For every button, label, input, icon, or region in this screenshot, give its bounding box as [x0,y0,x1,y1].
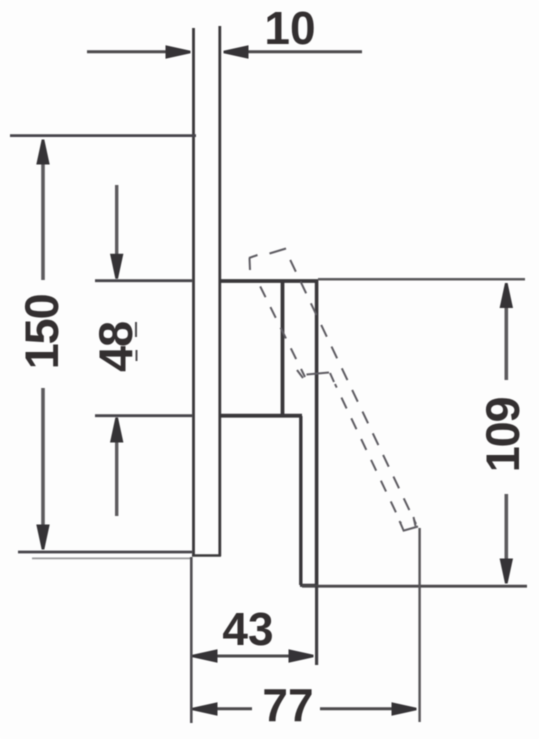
extension line 77 right [418,528,420,722]
dimension 77 left shaft [209,707,252,710]
svg-text:48: 48 [89,322,142,372]
arm top edge [220,279,318,283]
extension line 43 right (below arm) [315,586,318,665]
extension line 150 top [10,134,196,137]
dashed outline inner upper edge [258,282,305,377]
extension line below plate (43/77 left) [190,557,193,723]
dimension 10 left shaft [87,50,172,53]
arrowhead 43 right (points right) [289,649,314,662]
svg-text:10: 10 [264,2,315,54]
dimension 150 shaft upper [41,158,45,280]
arrowhead 48 top (points down) [110,254,123,279]
arrowhead 150 bottom (points down) [36,525,49,550]
arm step horizontal edge [220,414,302,418]
dimension 109 lower shaft [504,494,508,565]
arrowhead 150 top (points up) [36,140,49,165]
arrowhead 48 bottom (points up) [110,418,123,443]
arm step vertical edge [299,416,302,585]
arrowhead 109 top (points up) [500,283,513,308]
scan ghost line under bottom extension [32,557,190,559]
dimension 10 right shaft [241,50,362,53]
arrowhead 77 right (points right) [392,702,417,715]
arrowhead 77 left (points left) [193,702,218,715]
dimension 150 shaft lower [41,388,45,531]
arm bottom cap [300,584,318,587]
dimension 48 lower shaft [115,437,118,516]
dimension 48 upper shaft [115,185,118,259]
arrowhead 43 left (points left) [193,649,218,662]
extension line 109 top [318,278,525,281]
svg-text:77: 77 [262,679,313,731]
arm inner vertical edge [281,281,285,416]
arm outer vertical edge [315,280,319,586]
dashed outline step [297,370,334,382]
wall plate bottom cap [192,554,221,557]
svg-text:150: 150 [15,295,68,370]
extension line 48 bottom left [95,414,192,417]
arrowhead 10 right (points left) [224,45,249,58]
wall plate right face line [218,26,221,556]
dashed outline inner lower edge [335,384,401,523]
arrowhead 109 bottom (points down) [500,559,513,584]
extension line 48 top left [95,279,192,282]
underline marks beside 48 [135,322,138,361]
arrowhead 10 left (points right) [166,45,191,58]
svg-text:109: 109 [476,398,529,473]
dashed open-position outline: top-left corner tick [249,255,258,270]
wall plate left face line [192,28,195,556]
dimension 77 right shaft [320,707,398,710]
dashed outline right edge [286,250,417,524]
extension line 150 bottom [18,551,192,554]
dimension 43 shaft [210,655,295,658]
dashed outline bottom cap [400,517,419,532]
dimension 109 upper shaft [504,301,508,380]
extension line 109 bottom [302,585,527,588]
svg-text:43: 43 [222,603,273,655]
dashed outline top edge [270,249,287,254]
